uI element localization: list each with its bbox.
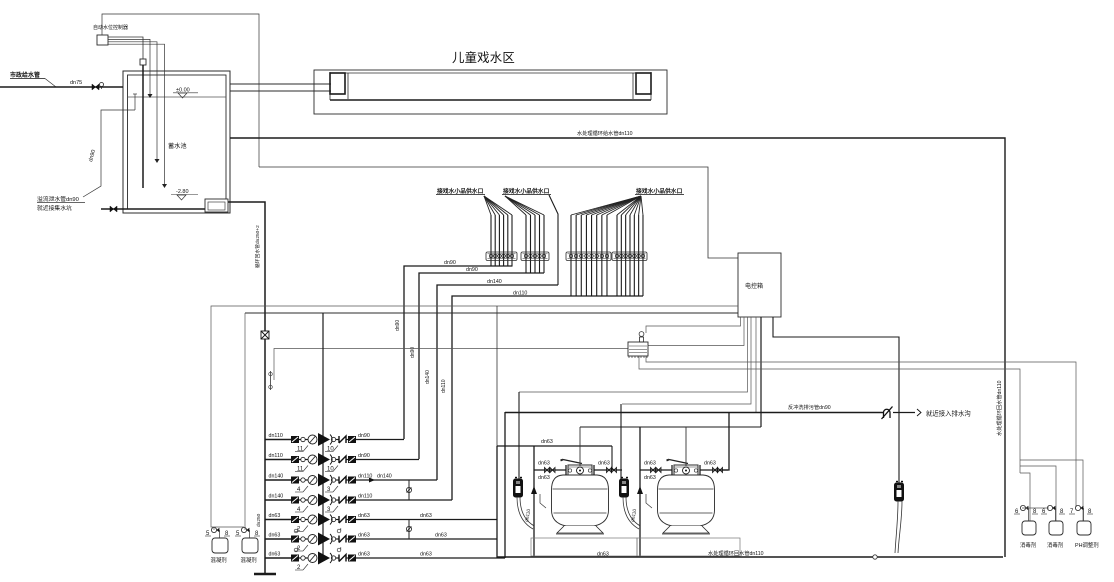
- pump unit row 5: [265, 519, 291, 521]
- link wire between dosing pumps: [1022, 507, 1049, 509]
- svg-text:dn110: dn110: [269, 433, 283, 439]
- svg-text:dn63: dn63: [541, 439, 553, 445]
- control conduit to panel: [259, 167, 738, 258]
- svg-text:dn90: dn90: [466, 267, 478, 273]
- svg-text:自动水位控制器: 自动水位控制器: [93, 24, 128, 31]
- svg-text:循环回水管dn250+2: 循环回水管dn250+2: [254, 225, 261, 268]
- filter multiport actuator line: [580, 426, 761, 428]
- svg-text:dn110: dn110: [269, 453, 283, 459]
- manifold end drop: [611, 446, 613, 470]
- dosing tank D3 消毒剂: [1022, 521, 1036, 535]
- trough right end cap: [636, 73, 651, 94]
- dn110 suction curve S3: [895, 501, 898, 553]
- water quality analyzer unit: [628, 342, 648, 356]
- multiport valve head F1: [568, 465, 592, 475]
- feeder pipe dn110 pump4 to groups3-4: [452, 296, 643, 500]
- svg-text:dn63: dn63: [420, 513, 432, 519]
- sump pit: [205, 199, 228, 212]
- filter feed manifold dn63: [497, 445, 612, 447]
- svg-text:dn63: dn63: [435, 533, 447, 539]
- valve on municipal pipe: [92, 84, 99, 90]
- wire to dosing pump2: [244, 313, 246, 530]
- lance drop tank D5: [1020, 460, 1083, 521]
- manifold header group4: [612, 252, 647, 261]
- manifold header group3: [566, 252, 611, 261]
- svg-text:dn63: dn63: [358, 513, 370, 519]
- hair strainer F1: [514, 479, 523, 497]
- svg-text:dn63: dn63: [704, 461, 716, 467]
- supply riser pipes group1: [490, 215, 492, 266]
- trough supply pipe upper: [230, 83, 331, 85]
- svg-text:dn90: dn90: [358, 453, 370, 459]
- discharge line pump1: [356, 439, 404, 441]
- svg-text:PH调整剂: PH调整剂: [1075, 541, 1099, 549]
- dosing tank D4 消毒剂: [1049, 521, 1063, 535]
- svg-text:dn90: dn90: [395, 320, 401, 331]
- pump power drop line: [322, 313, 324, 558]
- svg-text:dn63: dn63: [358, 533, 370, 539]
- svg-text:dn140: dn140: [377, 474, 392, 480]
- manifold header group1: [486, 252, 517, 261]
- trough left end cap: [330, 73, 345, 94]
- hair strainer S3: [895, 483, 904, 501]
- discharge line pump6 dn63: [356, 538, 497, 540]
- fan-out lines group1: [484, 196, 491, 215]
- tank drain pipe: [101, 208, 206, 210]
- tank inner wall: [128, 75, 227, 209]
- trough supply pipe lower: [230, 90, 331, 92]
- pump unit row 3: [265, 479, 291, 481]
- svg-text:就近接集水坑: 就近接集水坑: [37, 204, 72, 212]
- backwash drain pipe dn90: [505, 412, 884, 414]
- handle F2: [669, 460, 688, 464]
- supply riser pipes group4: [616, 215, 618, 296]
- pump unit row 4: [265, 499, 291, 501]
- svg-text:dn63: dn63: [269, 552, 281, 558]
- header end bar: [254, 573, 276, 576]
- panel wire short drop: [755, 317, 757, 412]
- overflow pipe 溢流泄水管: [134, 94, 136, 110]
- bypass links between discharge lines: [408, 480, 410, 500]
- bottom return main dn110: [497, 556, 1003, 558]
- analyzer wire right drop: [639, 356, 1020, 473]
- discharge line pump7 dn63: [356, 557, 505, 559]
- svg-text:dn250: dn250: [256, 513, 262, 527]
- svg-text:蓄水池: 蓄水池: [168, 142, 187, 150]
- svg-text:dn63: dn63: [420, 552, 432, 558]
- lance drop tank D3: [1020, 473, 1030, 521]
- pump unit row 1: [265, 439, 291, 441]
- sand filter tank F1: [552, 475, 609, 526]
- multiport valve head F2: [674, 465, 698, 475]
- filter2 inlet drop: [719, 412, 729, 470]
- main circulation supply pipe dn110: [230, 138, 1005, 557]
- svg-text:dn63: dn63: [538, 475, 550, 481]
- sensor arrows: [148, 94, 153, 98]
- svg-text:dn75: dn75: [70, 80, 82, 86]
- municipal supply pipe dn75: [0, 86, 123, 88]
- float switch box: [140, 59, 146, 65]
- svg-text:混凝剂: 混凝剂: [211, 556, 227, 564]
- svg-text:接戏水小品供水口: 接戏水小品供水口: [503, 187, 550, 195]
- svg-text:dn63: dn63: [644, 475, 656, 481]
- svg-text:dn63: dn63: [538, 461, 550, 467]
- drain pipe from panel area to strainer3: [773, 317, 899, 483]
- dosing tank D2 混凝剂: [242, 538, 258, 553]
- sensor rod: [142, 65, 144, 188]
- dn110 suction curve F1: [517, 497, 533, 529]
- controller sensor wires: [108, 37, 143, 188]
- junction circle: [873, 555, 877, 559]
- feeder pipe dn90 pump1 to group1: [404, 266, 513, 439]
- pump unit row 2: [265, 459, 291, 461]
- dosing pump D5: [1075, 505, 1080, 510]
- svg-text:消毒剂: 消毒剂: [1020, 541, 1036, 549]
- svg-text:水处理循环回水管dn110: 水处理循环回水管dn110: [708, 549, 764, 557]
- svg-text:dn90: dn90: [444, 260, 456, 266]
- strainer2 feed drop: [620, 404, 622, 482]
- trap symbol: [882, 407, 893, 420]
- drain valve: [110, 206, 117, 212]
- discharge line pump5 dn63: [356, 519, 497, 521]
- pump7 riser to backwash line: [504, 412, 506, 558]
- dosing tank D5 PH调整剂: [1077, 521, 1091, 535]
- svg-text:接戏水小品供水口: 接戏水小品供水口: [437, 187, 484, 195]
- filter foundation pad 1: [531, 538, 637, 556]
- supply riser pipes group3: [570, 215, 572, 296]
- svg-text:水处理循环给水管dn110: 水处理循环给水管dn110: [577, 129, 633, 137]
- svg-text:dn110: dn110: [358, 494, 372, 500]
- svg-text:混凝剂: 混凝剂: [241, 556, 257, 564]
- dosing pump D2: [241, 527, 246, 532]
- panel line to strainer2 feed: [622, 317, 751, 404]
- discharge line pump4: [356, 499, 452, 501]
- dosing pump D4: [1047, 505, 1052, 510]
- feeder pipe dn140 pump3: [437, 285, 558, 480]
- svg-text:dn63: dn63: [269, 533, 281, 539]
- panel wire to analyzer top: [646, 317, 741, 333]
- svg-text:dn63: dn63: [644, 461, 656, 467]
- fan-out lines groups 3+4: [571, 196, 641, 215]
- controller box 自动水位控制器: [97, 35, 108, 45]
- filter F1 side valves: [534, 469, 566, 471]
- hair strainer F2: [620, 479, 629, 497]
- leader: [45, 79, 56, 88]
- filter foundation pad 2: [637, 538, 740, 556]
- dn140 riser to fan label2: [549, 195, 558, 285]
- suction header from sump dn250: [228, 202, 265, 574]
- discharge line pump2: [356, 459, 419, 461]
- dn110 suction curve F2: [623, 497, 639, 529]
- panel drop to filter actuator line: [760, 317, 762, 427]
- panel line to strainer1 feed: [519, 317, 748, 392]
- dosing pump D3: [1020, 505, 1025, 510]
- conduit controller to control panel: [102, 14, 259, 167]
- lance drop tank D4: [1020, 466, 1056, 521]
- svg-text:dn140: dn140: [269, 474, 284, 480]
- svg-text:电控箱: 电控箱: [745, 282, 763, 290]
- tank water line: [128, 96, 227, 98]
- svg-text:dn90: dn90: [358, 433, 370, 439]
- panel wire to dosing pumps left: [211, 306, 738, 527]
- svg-text:市政给水管: 市政给水管: [10, 71, 40, 79]
- strainer1 feed drop: [518, 392, 520, 479]
- svg-text:溢流泄水管dn90: 溢流泄水管dn90: [37, 195, 79, 203]
- svg-text:dn140: dn140: [487, 279, 502, 285]
- svg-text:水处理循环回水管dn110: 水处理循环回水管dn110: [995, 380, 1003, 436]
- dosing tank D1 混凝剂: [212, 538, 228, 553]
- control panel 电控箱: [738, 253, 781, 317]
- svg-text:接戏水小品供水口: 接戏水小品供水口: [636, 187, 683, 195]
- handle F1: [563, 460, 582, 464]
- svg-text:dn63: dn63: [598, 461, 610, 467]
- manifold header group2: [521, 252, 549, 261]
- filter F1 bottom return riser: [533, 470, 535, 556]
- filter feed control drop: [496, 306, 498, 446]
- feeder pipe dn90 pump2 to group2: [419, 273, 544, 459]
- pump unit row 6: [265, 538, 291, 540]
- probe signal wire to analyzer: [274, 349, 628, 381]
- trough outer structure: [314, 70, 667, 114]
- filter1 inlet drop: [533, 446, 535, 470]
- svg-text:儿童戏水区: 儿童戏水区: [452, 50, 515, 65]
- water quality probe on header: [270, 371, 272, 390]
- svg-text:dn63: dn63: [269, 513, 281, 519]
- tank 蓄水池 outer wall: [123, 71, 230, 213]
- panel wire to analyzer side: [648, 317, 744, 346]
- svg-text:反冲洗排污管dn90: 反冲洗排污管dn90: [788, 403, 831, 411]
- pump unit row 7: [265, 557, 291, 559]
- analyzer wire to PH pump: [646, 356, 1076, 507]
- trough inner channel: [330, 72, 651, 74]
- supply riser pipes group2: [525, 215, 527, 273]
- fan-out lines group2: [505, 196, 526, 215]
- sand filter tank F2: [658, 475, 715, 526]
- svg-text:dn140: dn140: [269, 494, 284, 500]
- valve on header: [261, 331, 269, 339]
- filter F2 side valves: [640, 469, 672, 471]
- svg-text:dn63: dn63: [358, 552, 370, 558]
- svg-text:-2.80: -2.80: [176, 189, 189, 195]
- filter F2 bottom return riser: [639, 427, 641, 556]
- svg-text:dn110: dn110: [441, 379, 447, 393]
- svg-text:就近接入排水沟: 就近接入排水沟: [926, 409, 971, 418]
- discharge line pump3: [356, 479, 437, 481]
- filter feed riser dn63: [496, 446, 498, 558]
- svg-text:消毒剂: 消毒剂: [1047, 541, 1063, 549]
- svg-text:dn140: dn140: [425, 370, 431, 384]
- dosing pump D1: [211, 527, 216, 532]
- pump power feed line: [245, 312, 738, 314]
